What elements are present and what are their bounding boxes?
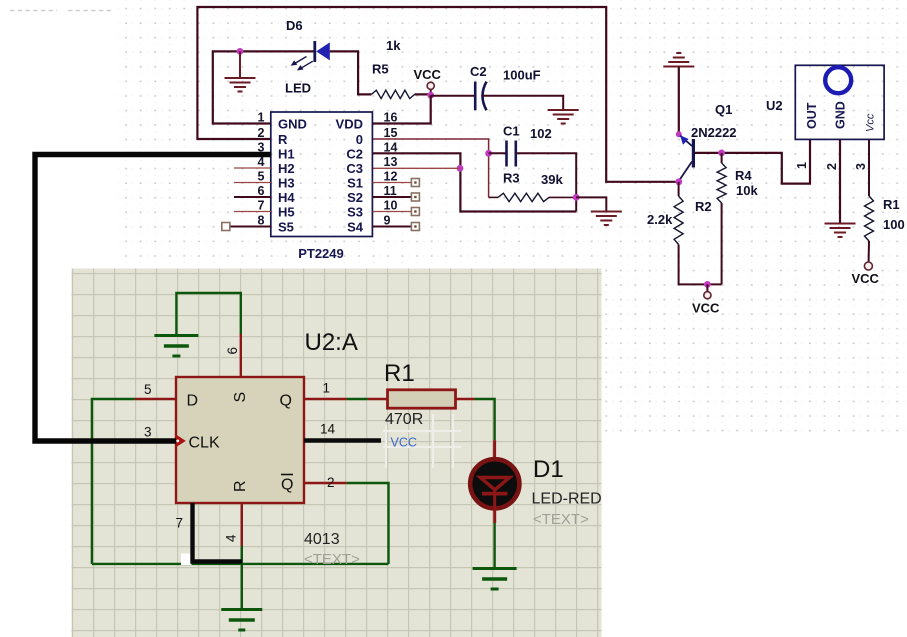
svg-text:Q: Q (281, 477, 293, 494)
svg-text:R4: R4 (735, 168, 752, 183)
wire: IC pin9 lead (372, 226, 411, 228)
power VCC (below R1) (868, 241, 870, 262)
resistor R5 (371, 90, 414, 98)
svg-text:H2: H2 (278, 161, 295, 176)
wire: Q1 base to U2 pin1 OUT (695, 140, 810, 184)
svg-text:VCC: VCC (692, 301, 720, 316)
wire: LED cathode to R5 (330, 51, 372, 94)
svg-text:5: 5 (258, 170, 265, 184)
svg-text:100: 100 (883, 217, 905, 232)
svg-text:3: 3 (854, 163, 868, 170)
svg-text:U2: U2 (766, 98, 783, 113)
thick black wire H1 to CLK (35, 155, 271, 442)
svg-text:S3: S3 (347, 205, 363, 220)
svg-text:S2: S2 (347, 190, 363, 205)
svg-text:1k: 1k (386, 38, 401, 53)
svg-text:H3: H3 (278, 176, 295, 191)
wire: Q to R1 (green) (347, 398, 368, 400)
svg-text:S1: S1 (347, 176, 363, 191)
svg-text:6: 6 (225, 347, 240, 355)
svg-text:S4: S4 (347, 220, 364, 235)
wire: R3 right to ground (576, 197, 606, 211)
power VCC (top, at R5) (430, 90, 432, 96)
svg-text:1: 1 (258, 111, 265, 125)
svg-text:9: 9 (384, 214, 391, 228)
svg-text:LED-RED: LED-RED (532, 491, 602, 508)
flip-flop U2:A 4013 body (176, 377, 304, 503)
svg-text:Vcc: Vcc (865, 113, 877, 132)
svg-text:CLK: CLK (189, 435, 220, 452)
wire: IC pin8 S5 lead (230, 226, 271, 228)
white patch near pin7 (181, 554, 192, 566)
svg-text:H5: H5 (278, 205, 295, 220)
wire: C1 right lead to right node (516, 153, 576, 211)
wire: R pin to bottom/ground (green) (241, 546, 243, 609)
svg-text:102: 102 (530, 126, 552, 141)
terminal square pin8 (222, 223, 230, 231)
wire: R2/R4 bottom to VCC (679, 245, 722, 285)
svg-text:GND: GND (834, 101, 848, 129)
node: junction R3 right (573, 194, 580, 201)
wire: LED to ground (green) (493, 523, 495, 568)
svg-text:R: R (278, 132, 288, 147)
svg-text:R1: R1 (883, 197, 900, 212)
svg-text:LED: LED (285, 81, 311, 96)
svg-text:R1: R1 (384, 360, 415, 387)
wire: IC pin12 lead (372, 182, 411, 184)
wire: U2 pin3 Vcc down to R1 (868, 140, 870, 196)
svg-text:C3: C3 (346, 161, 363, 176)
ground (below flip-flop) (221, 610, 262, 631)
svg-text:D: D (187, 393, 199, 410)
resistor R1 470R (Proteus) (368, 398, 388, 400)
svg-text:<TEXT>: <TEXT> (533, 511, 589, 528)
node: junction VCC/R5/C2/pin16 (427, 92, 434, 99)
svg-text:3: 3 (144, 425, 152, 440)
ground (right of C2) (548, 110, 579, 124)
svg-text:R3: R3 (503, 171, 520, 186)
svg-text:2: 2 (825, 163, 839, 170)
light grid patch near VCC label (383, 414, 461, 468)
terminal square pin12 (411, 179, 419, 187)
svg-text:4013: 4013 (304, 531, 340, 548)
svg-text:13: 13 (384, 155, 398, 169)
svg-text:C2: C2 (470, 64, 487, 79)
svg-text:10: 10 (384, 199, 398, 213)
svg-text:GND: GND (278, 117, 307, 132)
wire: VCC junction to C2 (431, 95, 476, 97)
svg-text:S: S (232, 392, 249, 403)
wire: net R (IC pin2 to outer top loop to Q1) (197, 7, 678, 182)
svg-text:U2:A: U2:A (305, 329, 358, 356)
svg-text:14: 14 (320, 422, 336, 437)
node: junction C1 left (485, 150, 492, 157)
svg-text:2N2222: 2N2222 (691, 125, 737, 140)
ground (near LED D6) (225, 51, 256, 91)
svg-text:VCC: VCC (852, 271, 880, 286)
wire: IC pin16 VDD to VCC junction (372, 95, 430, 123)
wire: S pin net to ground (top left green) (176, 293, 240, 335)
LED D1 (470, 459, 519, 508)
capacitor C2 (475, 82, 486, 111)
clock input triangle (176, 434, 186, 447)
wire: IC pin7 H5 lead (234, 211, 271, 213)
svg-text:15: 15 (384, 126, 398, 140)
resistor R4 (721, 153, 723, 163)
wire: IC pin1 GND up-left to LED anode (213, 51, 314, 123)
svg-text:5: 5 (144, 382, 152, 397)
svg-text:16: 16 (384, 111, 398, 125)
svg-text:R2: R2 (695, 199, 712, 214)
IC U? PT2249 body (271, 112, 373, 237)
wire: C1 left lead (489, 152, 507, 154)
transistor Q1 2N2222 (679, 135, 694, 181)
svg-text:1: 1 (795, 162, 809, 169)
terminal square pin10 (411, 208, 419, 216)
svg-text:C1: C1 (503, 124, 520, 139)
power VCC (below R2/R4) (706, 284, 708, 291)
svg-text:H4: H4 (278, 190, 295, 205)
svg-text:10k: 10k (736, 183, 758, 198)
ground (below LED D1) (473, 569, 517, 590)
svg-text:Q1: Q1 (715, 102, 732, 117)
wire: R1 to LED (green) (475, 399, 495, 440)
node: Q1 collector junction (676, 131, 682, 137)
svg-text:12: 12 (384, 170, 398, 184)
svg-text:R5: R5 (372, 62, 389, 77)
ground (above Q1, inverted) (663, 53, 694, 67)
node: junction pin13 (457, 165, 464, 172)
svg-text:<TEXT>: <TEXT> (304, 551, 360, 568)
pin stub R (red) (241, 503, 243, 546)
svg-text:D6: D6 (286, 18, 303, 33)
svg-text:7: 7 (176, 516, 184, 531)
svg-text:D1: D1 (533, 456, 564, 483)
svg-text:OUT: OUT (805, 102, 819, 129)
svg-text:14: 14 (384, 141, 398, 155)
svg-text:0: 0 (356, 132, 363, 147)
node: VCC junction bottom (704, 281, 711, 288)
wire: pin14 VCC (black) (304, 438, 381, 442)
svg-text:7: 7 (258, 199, 265, 213)
LED D1 top pin (red) (493, 440, 496, 477)
pin stub D (red) (135, 398, 176, 400)
svg-text:R: R (232, 480, 249, 492)
ground (Proteus top-left) (154, 336, 198, 357)
resistor R2 (678, 182, 680, 196)
svg-text:VCC: VCC (391, 436, 417, 450)
svg-text:S5: S5 (278, 220, 294, 235)
pin stub Q (red) (304, 398, 347, 400)
svg-text:VCC: VCC (414, 67, 442, 82)
svg-text:39k: 39k (541, 172, 563, 187)
svg-text:470R: 470R (385, 411, 423, 428)
pin stub S (red) (240, 334, 242, 377)
wire: D pin net (green) (92, 399, 135, 564)
wire: U2 pin2 GND down to ground (839, 140, 841, 224)
wire: pin7 (black) (193, 503, 243, 562)
resistor R3 (489, 196, 498, 198)
pin stub Qbar (red) (304, 482, 347, 484)
wire: IC pin4 H2 lead (234, 167, 271, 169)
svg-text:H1: H1 (278, 147, 295, 162)
svg-text:8: 8 (258, 214, 265, 228)
ground (below R3) (591, 212, 622, 226)
wire: IC pin10 lead (372, 211, 411, 213)
svg-text:4: 4 (224, 534, 239, 542)
wire: IC pin13 C3 (372, 167, 460, 169)
wire: IC pin15 "0" to R3 left node (372, 139, 488, 197)
wire: IC pin5 H3 lead (234, 182, 271, 184)
terminal square pin9 (411, 223, 419, 231)
wire: IC pin6 H4 lead (234, 196, 271, 198)
svg-text:C2: C2 (346, 147, 363, 162)
svg-text:11: 11 (384, 184, 397, 198)
node: base/R4 junction (718, 150, 725, 157)
svg-text:Q: Q (280, 393, 292, 410)
capacitor C1 (507, 141, 516, 167)
wire: Qbar net down (green) (347, 483, 389, 564)
resistor R1 (top schematic) (865, 196, 874, 241)
svg-text:100uF: 100uF (503, 68, 541, 83)
wire: IC pin11 lead (372, 196, 411, 198)
node: emitter/R2 junction (675, 178, 682, 185)
IC U2 (receiver module) body (795, 65, 884, 139)
diode D6 (LED) (291, 41, 330, 71)
svg-text:PT2249: PT2249 (298, 246, 344, 261)
terminal square pin11 (411, 193, 419, 201)
svg-text:2: 2 (258, 126, 265, 140)
wire: C2 to ground (482, 96, 563, 110)
svg-text:1: 1 (323, 381, 331, 396)
wire: IC pin14 C2 down and right (bottom of R3 loop) (372, 153, 576, 211)
svg-text:6: 6 (258, 184, 265, 198)
svg-text:VDD: VDD (336, 117, 363, 132)
U2 antenna circle (825, 67, 851, 93)
svg-text:2.2k: 2.2k (647, 212, 673, 227)
ground (U2 pin2) (825, 224, 856, 238)
svg-text:2: 2 (327, 475, 335, 490)
wire: ground to Q1 collector (678, 67, 680, 135)
wire: bottom feedback wire (green) (92, 563, 389, 565)
node: junction LED/ground (237, 48, 244, 55)
